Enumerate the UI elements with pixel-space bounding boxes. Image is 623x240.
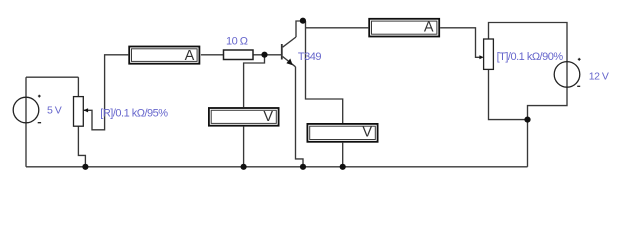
wire bottom rail <box>26 166 528 168</box>
ammeter A1 <box>129 47 199 64</box>
junction dot emitter to rail <box>300 164 306 170</box>
svg-text:A: A <box>424 20 434 36</box>
battery B1 5V <box>13 95 41 123</box>
svg-text:[T]/0.1 kΩ/90%: [T]/0.1 kΩ/90% <box>497 51 564 63</box>
wire node B down to voltmeter V2 <box>306 21 343 123</box>
potentiometer R1 <box>74 97 89 127</box>
node B junction dot <box>300 18 306 24</box>
wire resistor R2 to transistor base <box>253 54 282 56</box>
wire node B to ammeter A2 <box>306 27 369 29</box>
svg-text:V: V <box>362 125 372 141</box>
wire node C to bottom rail <box>527 120 529 167</box>
svg-text:A: A <box>185 48 195 64</box>
svg-text:T349: T349 <box>298 51 321 63</box>
junction dot V2 to rail <box>340 164 346 170</box>
wire node A to voltmeter V1 <box>244 55 265 107</box>
wire top-left rail <box>26 76 78 78</box>
junction dot V1 to rail <box>241 164 247 170</box>
wire emitter lead to bottom rail <box>296 67 304 167</box>
node A junction dot <box>261 52 267 58</box>
ammeter A2 <box>369 19 439 37</box>
junction dot node C <box>524 117 530 123</box>
svg-text:V: V <box>263 109 273 125</box>
wire pot R1 top lead <box>77 77 79 96</box>
wire collector lead to node B <box>296 21 303 37</box>
svg-text:[R]/0.1 kΩ/95%: [R]/0.1 kΩ/95% <box>100 108 168 120</box>
potentiometer R3 <box>479 39 493 69</box>
svg-text:5 V: 5 V <box>47 104 62 116</box>
battery B2 12V <box>554 58 580 87</box>
svg-text:12 V: 12 V <box>589 71 609 83</box>
wire R1 wiper to ammeter A1 <box>83 55 128 130</box>
wire voltmeter V1 to bottom rail <box>243 127 245 167</box>
voltmeter V1 <box>209 108 279 126</box>
junction dot pot R1 to rail <box>82 164 88 170</box>
wire voltmeter V2 to bottom rail <box>342 143 344 167</box>
wire pot R1 bottom lead <box>78 126 85 167</box>
voltmeter V2 <box>307 124 377 142</box>
wire pot R3 bottom lead <box>489 70 528 120</box>
wire left vertical through 5V source <box>25 77 27 167</box>
wire ammeter A2 to pot R3 wiper <box>440 28 480 58</box>
transistor Q1 <box>281 37 296 67</box>
resistor R2 10 ohm <box>224 50 254 60</box>
svg-text:10 Ω: 10 Ω <box>226 35 248 47</box>
wire pot R3 top to 12V source <box>489 23 568 120</box>
wire ammeter A1 to resistor R2 <box>201 54 224 56</box>
